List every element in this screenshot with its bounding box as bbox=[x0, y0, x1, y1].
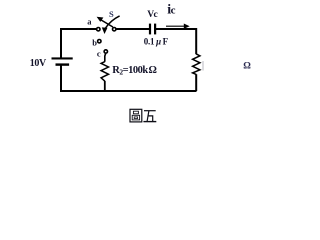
wire: bottom rail bbox=[60, 90, 197, 92]
glyph 五 top bar bbox=[144, 110, 156, 112]
wire: resistor R1 to bottom-right corner bbox=[195, 74, 197, 91]
wire: capacitor right plate to top-right corner down to resistor bbox=[156, 29, 196, 54]
capacitor C1 right plate bbox=[154, 24, 156, 35]
svg-text:Vc: Vc bbox=[147, 10, 157, 20]
wire: resistor R2 to bottom rail bbox=[104, 81, 106, 91]
battery V1 10V plate long bbox=[52, 57, 73, 59]
wire: battery negative down to bottom-left corner bbox=[60, 65, 62, 91]
svg-text:10V: 10V bbox=[30, 58, 47, 69]
node a terminal circle bbox=[97, 28, 100, 31]
current arrow ic bbox=[166, 24, 190, 29]
svg-text:c: c bbox=[97, 49, 101, 59]
wire: switch right terminal to capacitor left plate bbox=[116, 28, 149, 30]
wire: battery positive up to top-left corner then right to switch terminal a bbox=[61, 29, 96, 58]
glyph 圖 inner top mouth bbox=[133, 111, 138, 114]
node b terminal circle bbox=[98, 40, 101, 43]
switch S blade with arrowhead pointing up-left bbox=[97, 17, 113, 27]
svg-text:0.1μF: 0.1μF bbox=[144, 37, 169, 47]
svg-text:a: a bbox=[87, 17, 92, 27]
svg-text:S: S bbox=[109, 9, 114, 19]
caption 圖五 (drawn glyphs) bbox=[130, 109, 156, 122]
wire: node c down to resistor R2 bbox=[104, 54, 107, 62]
glyph 五 middle bar and right leg bbox=[148, 116, 153, 122]
capacitor C1 left plate bbox=[149, 24, 151, 35]
svg-text:b: b bbox=[92, 38, 97, 48]
artifact faint vertical line right of R1 bbox=[203, 61, 204, 71]
svg-text:R2=100kΩ: R2=100kΩ bbox=[112, 65, 156, 77]
resistor R2 zigzag bbox=[101, 62, 108, 82]
node switch right terminal circle bbox=[113, 28, 116, 31]
battery V1 10V plate short bbox=[56, 63, 70, 65]
svg-text:Ω: Ω bbox=[243, 62, 251, 72]
svg-text:ic: ic bbox=[167, 3, 175, 18]
node c terminal circle bbox=[104, 50, 107, 53]
glyph 五 bottom bar bbox=[143, 121, 156, 123]
glyph 圖 inner bottom core bbox=[134, 117, 137, 119]
switch S throw arrow curving down to tip below wire bbox=[102, 16, 120, 34]
glyph 五 left leg bbox=[147, 111, 149, 122]
glyph 圖 outer box bbox=[130, 109, 142, 122]
glyph 圖 inner bottom block bbox=[132, 115, 139, 120]
resistor R1 right branch zigzag bbox=[193, 54, 200, 75]
